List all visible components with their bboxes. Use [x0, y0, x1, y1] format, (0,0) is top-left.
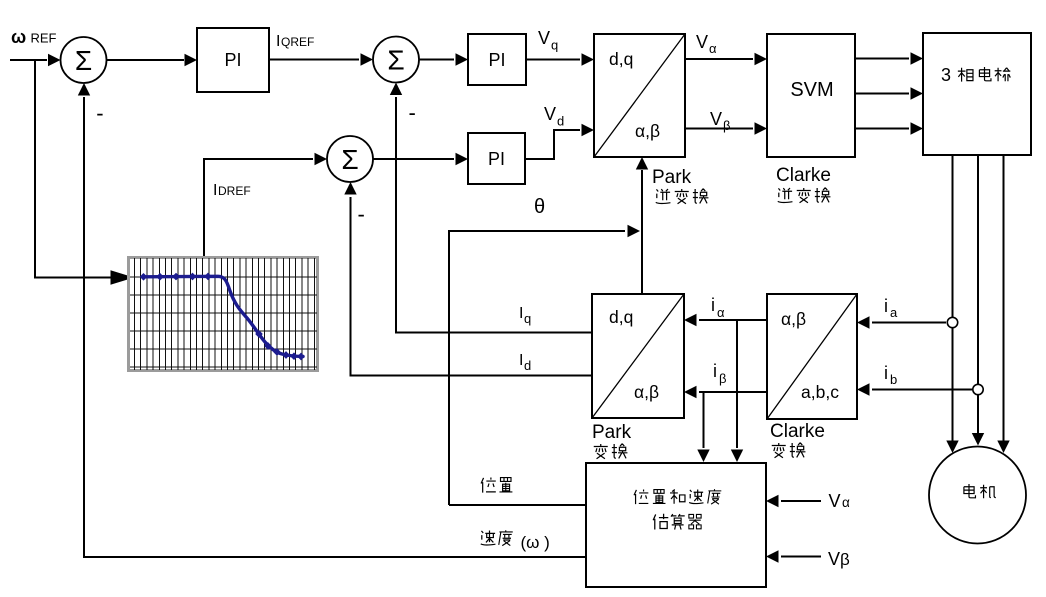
svg-text:i: i: [711, 295, 715, 315]
svg-text:Park: Park: [652, 167, 692, 188]
wire ibeta from Clarke to Park: [684, 386, 767, 398]
svg-text:V: V: [544, 104, 556, 124]
svg-text:α: α: [717, 305, 725, 320]
label ia: [884, 296, 898, 320]
svg-text:Park: Park: [592, 422, 632, 443]
motor: [929, 447, 1026, 544]
current sensor on phase B: [973, 384, 983, 394]
wire Iq feedback from Park to S2: [390, 83, 592, 333]
wire S1 to PI1: [107, 54, 198, 66]
svg-text:-: -: [358, 202, 365, 227]
svg-text:V: V: [829, 491, 841, 511]
wire bridge phase A down to motor: [946, 155, 958, 453]
wire S2 to PI2: [419, 53, 468, 65]
wire Valpha from inverse Park to SVM: [685, 53, 767, 65]
svg-text:Clarke: Clarke: [776, 165, 831, 186]
svg-text:(ω ): (ω ): [521, 533, 550, 552]
svg-text:ω: ω: [11, 27, 26, 47]
label ibeta: [713, 361, 726, 386]
wire speed feedback vertical into S1: [78, 83, 90, 558]
label position output: [481, 478, 512, 493]
block Clarke transform: [767, 294, 857, 419]
svg-text:V: V: [828, 549, 840, 569]
label Park inverse transform: [652, 167, 708, 204]
svg-text:i: i: [884, 296, 888, 316]
label Valpha estimator input: [829, 491, 851, 511]
ramp lookup table (flux weakening curve): [129, 258, 318, 371]
label Iq: [519, 305, 531, 326]
svg-text:I: I: [519, 305, 523, 322]
svg-text:α,β: α,β: [634, 382, 659, 402]
block SVM: [767, 34, 855, 157]
svg-text:q: q: [551, 38, 558, 53]
label Park transform caption: [592, 422, 632, 459]
svg-text:d: d: [557, 114, 564, 129]
svg-text:β: β: [840, 550, 850, 569]
label Vbeta: [710, 109, 730, 133]
label minus at S2: [409, 100, 416, 125]
svg-text:3: 3: [941, 65, 951, 85]
wire bridge phase B down to motor: [972, 155, 984, 446]
svg-text:d,q: d,q: [609, 307, 633, 327]
summing junction S1: [61, 37, 107, 83]
svg-text:I: I: [276, 33, 280, 50]
svg-text:I: I: [213, 182, 217, 199]
block PI1 speed regulator: [197, 28, 269, 92]
svg-text:-: -: [409, 100, 416, 125]
wire IDREF from ramp table to S3: [204, 153, 327, 256]
svg-text:a: a: [890, 305, 898, 320]
label Clarke transform caption: [770, 421, 825, 458]
svg-text:Clarke: Clarke: [770, 421, 825, 442]
wire ia from sensor A to Clarke: [857, 316, 946, 328]
wire ib from sensor B to Clarke: [857, 383, 972, 395]
wire theta trunk into inverse Park and Park: [636, 157, 648, 294]
svg-text:Σ: Σ: [75, 45, 92, 76]
label theta: [534, 196, 545, 218]
svg-text:α,β: α,β: [781, 309, 806, 329]
label Vq: [538, 28, 558, 53]
svg-text:REF: REF: [31, 31, 57, 46]
wire S3 to PI3: [373, 153, 468, 165]
svg-text:d: d: [524, 358, 531, 373]
block PI3 d-axis current regulator: [468, 133, 525, 184]
wire ialpha branch down to estimator: [731, 320, 743, 462]
wire speed from estimator to S1: [84, 556, 586, 558]
block Park transform: [592, 294, 684, 418]
label omega REF: [11, 27, 57, 47]
svg-text:V: V: [710, 109, 722, 129]
current sensor on phase A: [947, 317, 957, 327]
summing junction S2: [373, 37, 419, 83]
block 3-phase bridge: [923, 33, 1031, 155]
wire ibeta branch down to estimator: [697, 392, 709, 462]
svg-text:Σ: Σ: [341, 144, 358, 175]
wire Vq from PI2 to inverse Park: [526, 53, 594, 65]
svg-text:Σ: Σ: [387, 45, 404, 76]
label Id: [519, 352, 531, 373]
wire SVM to bridge phase C: [855, 122, 923, 134]
svg-text:-: -: [96, 100, 103, 125]
svg-text:α: α: [709, 41, 717, 56]
wire ialpha from Clarke to Park: [684, 314, 767, 326]
svg-text:α,β: α,β: [635, 121, 660, 141]
svg-text:V: V: [538, 28, 550, 48]
block inverse Park transform: [594, 34, 685, 157]
wire theta distribution from estimator: [449, 225, 640, 505]
label IDREF: [213, 182, 251, 199]
summing junction S3: [327, 136, 373, 182]
wire bridge phase C down to motor: [997, 155, 1009, 453]
wire SVM to bridge phase A: [855, 52, 923, 64]
svg-text:PI: PI: [224, 50, 241, 70]
label speed omega output: [481, 530, 550, 552]
svg-text:a,b,c: a,b,c: [801, 382, 839, 402]
svg-text:θ: θ: [534, 196, 545, 218]
label ib: [884, 363, 897, 387]
svg-text:V: V: [696, 32, 708, 52]
wire omega ref branch to ramp table: [35, 60, 134, 285]
svg-text:PI: PI: [488, 149, 505, 169]
wire Vd from PI3 to inverse Park: [525, 124, 594, 159]
svg-text:i: i: [884, 363, 888, 383]
svg-text:i: i: [713, 361, 717, 381]
svg-text:PI: PI: [488, 50, 505, 70]
svg-text:b: b: [890, 372, 897, 387]
svg-text:DREF: DREF: [218, 184, 251, 198]
label Vd: [544, 104, 564, 129]
label ialpha: [711, 295, 725, 320]
svg-text:d,q: d,q: [609, 49, 633, 69]
label minus at S3: [358, 202, 365, 227]
svg-text:β: β: [723, 118, 730, 133]
label Valpha: [696, 32, 717, 56]
wire Id feedback from Park to S3: [344, 182, 592, 376]
wire PI1 to S2: [269, 53, 373, 65]
svg-text:I: I: [519, 352, 523, 369]
block position and speed estimator: [586, 463, 766, 587]
svg-text:α: α: [842, 495, 850, 510]
svg-text:q: q: [524, 311, 531, 326]
svg-text:β: β: [719, 371, 726, 386]
svg-text:SVM: SVM: [790, 79, 833, 101]
wire Vbeta from inverse Park to SVM: [685, 122, 767, 134]
wire omega ref input: [10, 54, 61, 66]
wire SVM to bridge phase B: [855, 87, 923, 99]
wire position from estimator to theta riser: [449, 504, 586, 506]
label minus at S1: [96, 100, 103, 125]
label Clarke inverse transform: [776, 165, 831, 203]
wire Valpha input to estimator: [766, 495, 821, 507]
label IQREF: [276, 33, 314, 50]
block PI2 q-axis current regulator: [468, 34, 526, 85]
label Vbeta estimator input: [828, 549, 850, 569]
wire Vbeta input to estimator: [766, 550, 821, 562]
svg-text:QREF: QREF: [281, 35, 314, 49]
